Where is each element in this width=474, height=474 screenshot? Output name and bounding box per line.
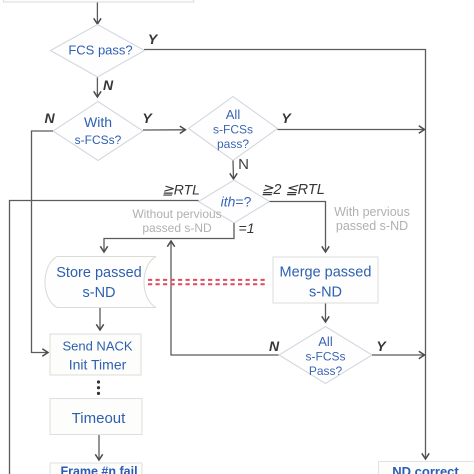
svg-text:FCS pass?: FCS pass?: [68, 43, 132, 58]
wire With-sFCSs N left down to Send NACK: [32, 131, 54, 353]
svg-text:With: With: [84, 114, 112, 130]
svg-text:Merge passed: Merge passed: [280, 265, 372, 281]
process Timeout: [50, 399, 142, 435]
svg-text:ND correct: ND correct: [392, 464, 459, 474]
wire FCS Y right and down to ND correct: [144, 50, 426, 460]
wire ith =1 down left to Store: [104, 223, 234, 252]
process Send NACK Init Timer: [50, 334, 141, 375]
process Merge passed s-ND: [273, 257, 378, 303]
wire All#2 N left and up to store path: [171, 241, 279, 355]
wire FCS N down: [96, 78, 98, 98]
wire Merge to All#2: [325, 304, 327, 323]
stored-data Store passed s-ND: [45, 257, 156, 308]
svg-text:Send NACK: Send NACK: [62, 339, 132, 354]
decision With s-FCSs?: [53, 102, 143, 161]
svg-text:ith=?: ith=?: [221, 194, 252, 210]
decision FCS pass?: [51, 25, 145, 78]
svg-text:Pass?: Pass?: [309, 364, 343, 378]
svg-text:passed s-ND: passed s-ND: [336, 219, 408, 233]
svg-text:All: All: [226, 107, 241, 122]
decision All s-FCSs pass?: [189, 97, 278, 161]
svg-text:pass?: pass?: [217, 137, 249, 151]
svg-text:N: N: [44, 110, 55, 126]
svg-text:s-FCSs?: s-FCSs?: [75, 133, 122, 147]
svg-text:Without pervious: Without pervious: [132, 207, 221, 221]
svg-text:Timeout: Timeout: [72, 410, 126, 427]
wire All pass Y right to vline: [278, 129, 425, 131]
top box: [4, 0, 194, 2]
svg-text:Store passed: Store passed: [56, 265, 141, 281]
decision ith=?: [199, 180, 270, 223]
wire All#2 Y right to vline: [372, 354, 425, 356]
svg-text:s-FCSs: s-FCSs: [306, 350, 346, 364]
svg-text:≧RTL: ≧RTL: [162, 182, 200, 198]
svg-text:All: All: [318, 334, 333, 349]
svg-text:Frame #n fail: Frame #n fail: [60, 465, 137, 474]
wire With-sFCSs Y right: [143, 129, 186, 131]
svg-text:≧2 ≦RTL: ≧2 ≦RTL: [261, 182, 325, 198]
red dashed link: [148, 279, 267, 281]
svg-text:N: N: [238, 156, 249, 173]
terminator ND correct: [379, 462, 474, 474]
svg-text:=1: =1: [239, 220, 255, 236]
svg-text:s-FCSs: s-FCSs: [213, 123, 253, 137]
vertical ellipsis: [97, 380, 100, 383]
svg-text:N: N: [269, 338, 280, 354]
wire Store to Send NACK: [99, 308, 101, 330]
svg-text:Init Timer: Init Timer: [69, 357, 127, 373]
svg-text:s-ND: s-ND: [82, 285, 115, 301]
svg-text:passed s-ND: passed s-ND: [142, 221, 212, 235]
terminator Frame #n fail: [50, 463, 142, 474]
svg-text:N: N: [103, 77, 114, 93]
wire All pass N down to ith: [232, 161, 235, 180]
decision All s-FCSs Pass? (2): [279, 327, 372, 384]
svg-text:With pervious: With pervious: [334, 205, 410, 219]
svg-text:s-ND: s-ND: [309, 285, 342, 301]
wire top box to FCS diamond: [96, 3, 98, 24]
wire ith >=RTL left and down off page: [10, 201, 199, 474]
wire ith right down to Merge: [270, 202, 326, 253]
wire Timeout to Frame fail: [98, 435, 100, 460]
